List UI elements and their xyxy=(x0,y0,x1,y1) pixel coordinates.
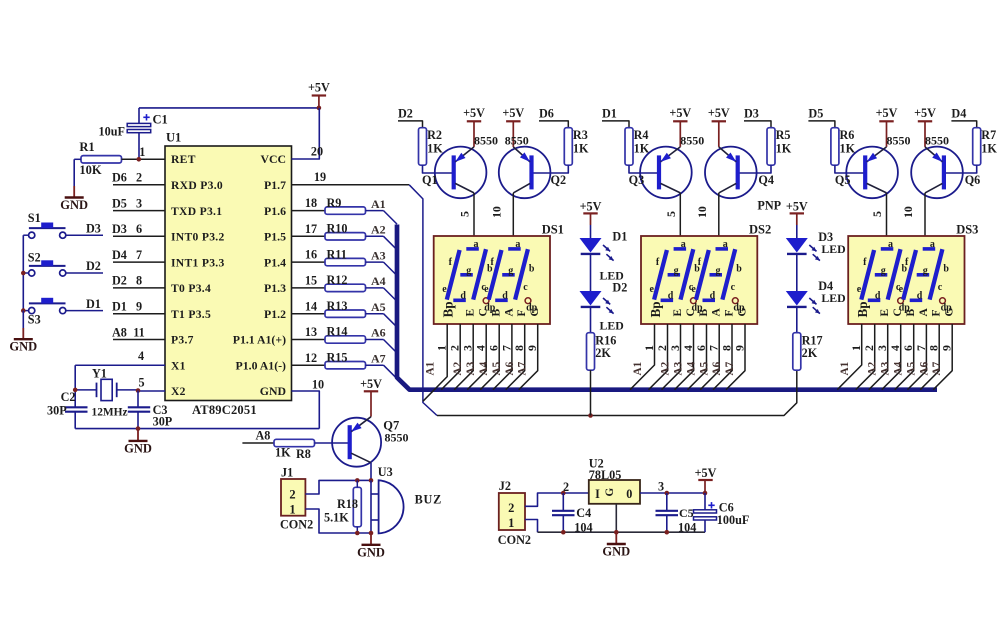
svg-text:AT89C2051: AT89C2051 xyxy=(192,403,257,417)
+5V supply top xyxy=(308,81,330,108)
DS1 pin 6 wire xyxy=(480,324,503,390)
svg-text:a: a xyxy=(930,239,935,250)
ground xtal xyxy=(124,429,152,456)
svg-text:A5: A5 xyxy=(699,361,711,375)
svg-text:e: e xyxy=(484,284,489,295)
svg-text:R18: R18 xyxy=(337,497,358,511)
svg-text:X2: X2 xyxy=(171,385,186,398)
svg-text:g: g xyxy=(923,265,928,276)
svg-text:8550: 8550 xyxy=(887,133,911,147)
U1 pin 11 net A8 xyxy=(112,325,165,339)
junction C5 top xyxy=(665,491,670,496)
svg-text:12: 12 xyxy=(305,351,317,365)
DS2 pin 2 wire xyxy=(649,324,672,390)
svg-text:RXD P3.0: RXD P3.0 xyxy=(171,179,223,192)
wire U2 out xyxy=(640,479,705,493)
svg-text:a: a xyxy=(723,239,728,250)
svg-text:16: 16 xyxy=(305,248,317,262)
svg-text:E: E xyxy=(879,309,891,317)
resistor R10 xyxy=(292,222,366,241)
U1 pin 8 net D2 xyxy=(112,274,165,288)
svg-text:D2: D2 xyxy=(112,274,127,288)
junction S2 xyxy=(21,271,26,276)
svg-text:1K: 1K xyxy=(427,141,443,155)
svg-text:1K: 1K xyxy=(275,446,291,460)
wire collector Q5 pin5 xyxy=(870,193,887,236)
DS1 pin 8 wire xyxy=(506,324,529,390)
svg-text:d: d xyxy=(460,291,466,302)
svg-text:A8: A8 xyxy=(256,429,271,443)
resistor R2 block1 xyxy=(398,106,454,173)
svg-text:11: 11 xyxy=(133,325,145,339)
svg-text:D2: D2 xyxy=(86,259,101,273)
svg-text:18: 18 xyxy=(305,196,317,210)
ground switches xyxy=(9,311,37,354)
transistor Q3 8550 xyxy=(629,147,692,199)
svg-text:E: E xyxy=(672,309,684,317)
svg-text:c: c xyxy=(938,282,943,293)
svg-text:A5: A5 xyxy=(491,361,503,375)
capacitor C2 xyxy=(47,390,88,429)
resistor R9 xyxy=(292,196,366,214)
svg-text:8: 8 xyxy=(927,345,941,351)
svg-text:LED: LED xyxy=(821,242,845,256)
svg-text:A4: A4 xyxy=(893,361,905,375)
label 8550 Q5 xyxy=(887,133,911,147)
svg-text:R12: R12 xyxy=(327,273,348,287)
switch S2 net D2 xyxy=(28,251,103,277)
+5V emitter DS2 x719 xyxy=(708,106,730,147)
svg-text:A4: A4 xyxy=(478,361,490,375)
DS3 pin 1 wire xyxy=(837,324,863,390)
svg-text:10K: 10K xyxy=(79,163,102,177)
junction S3 xyxy=(21,308,26,313)
svg-text:GND: GND xyxy=(602,545,630,559)
+5V emitter DS2 x680 xyxy=(669,106,691,147)
svg-text:CON2: CON2 xyxy=(280,518,313,532)
svg-text:b: b xyxy=(529,263,535,274)
junction C6 top xyxy=(703,491,708,496)
svg-text:D1: D1 xyxy=(112,300,127,314)
junction U2 gnd xyxy=(614,530,619,535)
DS2 pin 4 wire xyxy=(675,324,698,390)
wire U2 gnd pin xyxy=(615,504,617,532)
svg-text:R13: R13 xyxy=(327,299,348,313)
svg-text:a: a xyxy=(515,239,520,250)
wire top rail R18 xyxy=(357,479,372,481)
DS3 pin 9 wire xyxy=(933,324,954,390)
svg-text:D3: D3 xyxy=(86,221,101,235)
svg-text:10: 10 xyxy=(901,206,915,218)
resistor right block2 xyxy=(738,106,792,173)
display DS2 xyxy=(641,223,771,325)
svg-text:A7: A7 xyxy=(724,361,736,375)
svg-text:+5V: +5V xyxy=(914,106,936,120)
svg-text:1: 1 xyxy=(642,345,656,351)
DS2 pin 7 wire xyxy=(700,324,723,390)
svg-text:P1.1 A1(+): P1.1 A1(+) xyxy=(233,333,286,347)
svg-text:100uF: 100uF xyxy=(717,513,750,527)
svg-text:a: a xyxy=(681,239,686,250)
svg-text:+5V: +5V xyxy=(876,106,898,120)
svg-text:+5V: +5V xyxy=(502,106,524,120)
svg-text:D6: D6 xyxy=(539,106,554,120)
svg-text:Q1: Q1 xyxy=(422,173,438,187)
LED D2 xyxy=(580,280,628,332)
ground buzzer xyxy=(357,533,385,559)
svg-text:d: d xyxy=(710,291,716,302)
svg-text:GND: GND xyxy=(124,441,152,455)
svg-text:1K: 1K xyxy=(573,141,589,155)
junction C4 top xyxy=(561,491,566,496)
svg-text:c: c xyxy=(731,282,736,293)
svg-text:D3: D3 xyxy=(744,106,759,120)
svg-text:5: 5 xyxy=(870,211,884,217)
junction C4 bottom xyxy=(561,530,566,535)
node A6 xyxy=(366,326,398,353)
svg-text:13: 13 xyxy=(305,325,317,339)
svg-text:8: 8 xyxy=(720,345,734,351)
U1 pin 6 net D3 xyxy=(112,222,165,236)
svg-text:C4: C4 xyxy=(576,506,591,520)
node A3 xyxy=(366,248,398,275)
svg-text:R4: R4 xyxy=(634,128,649,142)
wire J1 pin2 xyxy=(305,480,356,494)
svg-text:4: 4 xyxy=(888,345,902,351)
capacitor C6 100uF xyxy=(694,493,750,532)
svg-text:J1: J1 xyxy=(281,466,293,480)
resistor R1 xyxy=(74,140,165,177)
svg-text:1K: 1K xyxy=(981,141,997,155)
svg-text:A6: A6 xyxy=(711,361,723,375)
+5V emitter DS3 x925 xyxy=(914,106,936,147)
LED D4 xyxy=(786,279,846,333)
svg-text:8: 8 xyxy=(136,274,142,288)
LED D1 xyxy=(580,229,628,291)
+5V emitter DS1 x513 xyxy=(502,106,524,147)
wire X2 xyxy=(138,375,165,391)
svg-text:D1: D1 xyxy=(612,229,627,243)
node A1 xyxy=(366,197,398,224)
svg-text:R3: R3 xyxy=(573,128,588,142)
svg-text:A2: A2 xyxy=(452,361,464,375)
svg-text:Y1: Y1 xyxy=(92,367,107,381)
svg-text:LED: LED xyxy=(600,319,624,333)
svg-text:D1: D1 xyxy=(602,106,617,120)
resistor R12 xyxy=(292,273,366,292)
transistor Q5 8550 xyxy=(835,147,898,199)
svg-text:LED: LED xyxy=(821,291,845,305)
svg-text:C2: C2 xyxy=(61,390,76,404)
svg-text:e: e xyxy=(899,284,904,295)
node A2 xyxy=(366,223,398,250)
bus vertical+horizontal xyxy=(397,225,937,390)
junction X1-C2 xyxy=(73,388,78,393)
svg-text:A2: A2 xyxy=(867,361,879,375)
svg-text:1: 1 xyxy=(435,345,449,351)
transistor Q4 8550 xyxy=(705,147,774,199)
label 8550 Q2 xyxy=(505,133,529,147)
svg-text:Q3: Q3 xyxy=(629,173,645,187)
svg-text:D5: D5 xyxy=(808,106,823,120)
wire J2 pin1 xyxy=(525,520,538,533)
svg-text:S3: S3 xyxy=(28,313,41,327)
svg-text:g: g xyxy=(508,265,513,276)
svg-text:7: 7 xyxy=(136,248,142,262)
resistor R11 xyxy=(292,247,366,266)
svg-text:A6: A6 xyxy=(918,361,930,375)
svg-text:P1.4: P1.4 xyxy=(264,255,286,269)
+5V LED col D1 xyxy=(580,200,602,238)
+5V U2 out xyxy=(695,466,717,493)
svg-text:G: G xyxy=(604,488,616,497)
connector J1 CON2 xyxy=(280,466,313,532)
svg-text:3: 3 xyxy=(461,345,475,351)
svg-text:+5V: +5V xyxy=(695,466,717,480)
svg-text:GND: GND xyxy=(9,340,37,354)
svg-text:3: 3 xyxy=(668,345,682,351)
svg-text:d: d xyxy=(668,291,674,302)
resistor R18 5.1K xyxy=(324,480,361,533)
svg-text:A7: A7 xyxy=(931,361,943,375)
svg-text:P1.6: P1.6 xyxy=(264,204,286,218)
svg-text:P1.0 A1(-): P1.0 A1(-) xyxy=(236,358,287,372)
wire Q7 collector xyxy=(370,463,372,481)
U1 pin 3 net D5 xyxy=(112,196,165,210)
svg-text:3: 3 xyxy=(658,479,664,493)
svg-text:8550: 8550 xyxy=(474,133,498,147)
svg-text:2K: 2K xyxy=(595,346,611,360)
svg-text:10uF: 10uF xyxy=(99,125,125,139)
svg-text:DS1: DS1 xyxy=(542,223,564,237)
svg-text:A1: A1 xyxy=(839,361,851,375)
resistor right block1 xyxy=(532,106,589,173)
svg-text:Q5: Q5 xyxy=(835,173,851,187)
svg-text:+5V: +5V xyxy=(708,106,730,120)
resistor right block3 xyxy=(944,106,997,173)
svg-text:5: 5 xyxy=(458,211,472,217)
svg-text:6: 6 xyxy=(136,222,142,236)
svg-text:R1: R1 xyxy=(79,140,94,154)
svg-text:b: b xyxy=(736,263,742,274)
svg-text:B: B xyxy=(491,309,503,317)
svg-text:2: 2 xyxy=(448,345,462,351)
DS2 pin 8 wire xyxy=(713,324,736,390)
svg-text:P1.3: P1.3 xyxy=(264,281,286,295)
svg-text:0: 0 xyxy=(626,487,632,501)
wire X1 xyxy=(75,349,165,408)
svg-text:D2: D2 xyxy=(612,280,627,294)
DS3 pin 6 wire xyxy=(895,324,918,390)
svg-text:A4: A4 xyxy=(686,361,698,375)
node A8 wire xyxy=(242,429,274,443)
DS2 pin 9 wire xyxy=(726,324,747,390)
U1 pin names xyxy=(171,152,286,398)
wire collector Q4 pin10 xyxy=(695,193,719,236)
svg-text:a: a xyxy=(888,239,893,250)
DS2 pin 6 wire xyxy=(688,324,711,390)
resistor R13 xyxy=(292,299,366,318)
svg-text:20: 20 xyxy=(311,145,323,159)
junction R18 top xyxy=(355,478,360,483)
LED D3 xyxy=(786,230,846,291)
svg-text:4: 4 xyxy=(681,345,695,351)
svg-text:+5V: +5V xyxy=(308,81,330,95)
svg-text:d: d xyxy=(875,291,881,302)
svg-text:R6: R6 xyxy=(840,128,855,142)
svg-text:2: 2 xyxy=(563,480,569,494)
wire J2 pin2 xyxy=(525,493,589,506)
DS1 pin 4 wire xyxy=(467,324,490,390)
display DS3 xyxy=(848,223,978,325)
svg-text:104: 104 xyxy=(678,521,696,535)
svg-text:17: 17 xyxy=(305,222,317,236)
svg-text:T1 P3.5: T1 P3.5 xyxy=(171,308,211,321)
buzzer U3 BUZ xyxy=(371,465,442,533)
svg-text:S1: S1 xyxy=(28,211,41,225)
resistor R6 block3 xyxy=(808,106,865,173)
junction +5V node xyxy=(317,106,322,111)
svg-text:g: g xyxy=(716,265,721,276)
transistor Q1 8550 xyxy=(422,147,486,199)
svg-text:P1.5: P1.5 xyxy=(264,230,286,244)
svg-text:X1: X1 xyxy=(171,359,186,372)
svg-text:g: g xyxy=(466,265,471,276)
svg-text:A2: A2 xyxy=(371,223,386,237)
svg-text:C: C xyxy=(478,308,490,316)
svg-text:R7: R7 xyxy=(981,128,996,142)
svg-text:A6: A6 xyxy=(371,326,386,340)
svg-text:DS2: DS2 xyxy=(749,223,771,237)
svg-text:A1: A1 xyxy=(632,361,644,375)
svg-text:G: G xyxy=(529,308,541,317)
svg-text:A: A xyxy=(711,308,723,317)
U1 pin 7 net D4 xyxy=(112,248,165,262)
wire VCC pin 20 xyxy=(292,108,324,159)
svg-text:VCC: VCC xyxy=(260,152,286,166)
svg-text:Q6: Q6 xyxy=(965,173,981,187)
svg-text:A7: A7 xyxy=(371,351,386,365)
transistor Q2 8550 xyxy=(499,147,566,199)
svg-text:A3: A3 xyxy=(673,361,685,375)
svg-text:A5: A5 xyxy=(906,361,918,375)
svg-text:b: b xyxy=(943,263,949,274)
svg-text:B: B xyxy=(698,309,710,317)
svg-text:A7: A7 xyxy=(517,361,529,375)
wire collector Q3 pin5 xyxy=(664,193,681,236)
resistor R15 xyxy=(292,350,366,369)
label 8550 Q3 xyxy=(680,133,704,147)
svg-text:8550: 8550 xyxy=(925,133,949,147)
svg-text:PNP: PNP xyxy=(757,198,781,212)
wire collector Q6 pin10 xyxy=(901,193,925,236)
svg-text:C5: C5 xyxy=(679,506,694,520)
svg-text:D2: D2 xyxy=(398,106,413,120)
svg-text:A6: A6 xyxy=(504,361,516,375)
wire P1.7 pin 19 to rail xyxy=(292,170,438,416)
IC U1 AT89C2051 xyxy=(165,131,292,418)
transistor Q7 8550 xyxy=(332,417,408,467)
DS3 pin 7 wire xyxy=(907,324,930,390)
svg-text:2: 2 xyxy=(136,171,142,185)
svg-text:D1: D1 xyxy=(86,297,101,311)
svg-text:P1.7: P1.7 xyxy=(264,178,286,192)
svg-text:GND: GND xyxy=(260,384,286,398)
svg-text:Q2: Q2 xyxy=(551,173,567,187)
svg-text:A3: A3 xyxy=(465,361,477,375)
svg-text:Q4: Q4 xyxy=(758,173,774,187)
svg-text:F: F xyxy=(724,309,736,316)
DS1 pin 1 wire special xyxy=(423,324,449,401)
svg-text:A2: A2 xyxy=(660,361,672,375)
svg-text:4: 4 xyxy=(138,349,144,363)
svg-text:a: a xyxy=(474,239,479,250)
DS3 pin 4 wire xyxy=(882,324,905,390)
switch S3 net D1 xyxy=(28,297,103,327)
svg-text:2: 2 xyxy=(655,345,669,351)
svg-text:R11: R11 xyxy=(327,247,347,261)
svg-text:d: d xyxy=(917,291,923,302)
svg-text:9: 9 xyxy=(940,345,954,351)
svg-text:2: 2 xyxy=(289,487,295,501)
DS2 pin 3 wire xyxy=(662,324,685,390)
svg-text:F: F xyxy=(516,309,528,316)
svg-text:G: G xyxy=(944,308,956,317)
svg-text:d: d xyxy=(502,291,508,302)
junction buz top xyxy=(369,478,374,483)
svg-text:R14: R14 xyxy=(327,325,348,339)
switch S1 net D3 xyxy=(28,211,103,238)
svg-text:D4: D4 xyxy=(951,106,966,120)
junction C5 bottom xyxy=(665,530,670,535)
svg-text:GND: GND xyxy=(60,198,88,212)
svg-text:10: 10 xyxy=(695,206,709,218)
svg-text:D5: D5 xyxy=(112,196,127,210)
wire switch common xyxy=(23,235,28,311)
resistor R14 xyxy=(292,325,366,343)
svg-text:3: 3 xyxy=(875,345,889,351)
node A5 xyxy=(366,300,398,327)
svg-text:+5V: +5V xyxy=(669,106,691,120)
svg-text:BUZ: BUZ xyxy=(415,493,442,507)
junction buz bottom xyxy=(369,531,374,536)
svg-text:C: C xyxy=(685,308,697,316)
svg-text:A1: A1 xyxy=(425,361,437,375)
svg-text:+5V: +5V xyxy=(786,200,808,214)
svg-text:+5V: +5V xyxy=(360,377,382,391)
wire J1 pin1 xyxy=(305,509,371,533)
connector J2 CON2 xyxy=(498,479,531,547)
svg-text:2: 2 xyxy=(862,345,876,351)
DS3 pin 2 wire xyxy=(856,324,879,390)
svg-text:e: e xyxy=(857,284,862,295)
ground R1 xyxy=(60,159,88,212)
capacitor C5 104 xyxy=(656,493,697,535)
capacitor C1 xyxy=(99,108,168,159)
capacitor C3 xyxy=(128,391,173,429)
regulator U2 78L05 xyxy=(589,457,640,504)
svg-text:14: 14 xyxy=(305,299,317,313)
label 8550 Q1 xyxy=(474,133,498,147)
svg-text:8550: 8550 xyxy=(385,430,409,444)
svg-text:8550: 8550 xyxy=(505,133,529,147)
svg-text:g: g xyxy=(881,265,886,276)
svg-text:78L05: 78L05 xyxy=(589,468,622,482)
DS2 pin 1 wire xyxy=(630,324,656,390)
+5V emitter DS3 x886 xyxy=(876,106,898,147)
DS3 pin 3 wire xyxy=(869,324,892,390)
svg-text:19: 19 xyxy=(314,170,326,184)
